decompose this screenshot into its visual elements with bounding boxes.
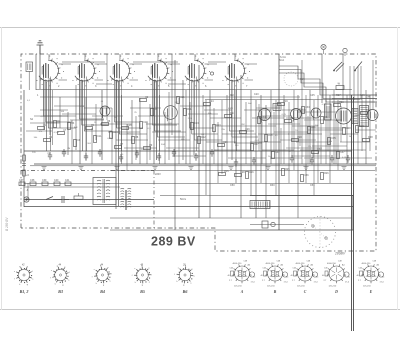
svg-text:125-210: 125-210 (297, 286, 305, 288)
svg-text:50c/s: 50c/s (180, 198, 187, 201)
wire (23, 90, 25, 207)
svg-text:B3: B3 (57, 289, 63, 294)
wire (280, 128, 282, 164)
coupling wires stage 6 (230, 54, 263, 151)
wire (320, 124, 322, 164)
wire (95, 104, 97, 140)
svg-text:C46: C46 (360, 94, 365, 97)
resistor R16 (246, 171, 255, 178)
wire (261, 122, 263, 164)
wire (172, 155, 206, 157)
resistor R3 (68, 122, 75, 129)
resistor R6 (102, 120, 111, 125)
wire (235, 90, 237, 183)
resistor R4 (86, 124, 95, 129)
wire (135, 116, 137, 160)
wire (118, 81, 120, 206)
wire (49, 78, 51, 135)
wire (275, 100, 277, 195)
aerial input coil (26, 62, 33, 90)
wire (70, 119, 104, 121)
capacitor C42 (57, 196, 69, 203)
coil diagram C (291, 261, 320, 294)
wire (327, 112, 329, 151)
resistor R24 (356, 125, 365, 132)
coupling wires stage 4 (153, 54, 186, 151)
wire (59, 97, 61, 128)
svg-text:C29: C29 (245, 128, 250, 131)
gramophone section dashed divider (153, 171, 155, 229)
wire (153, 80, 155, 164)
capacitor C54 (194, 153, 198, 161)
svg-text:R14: R14 (230, 112, 235, 115)
wire (300, 149, 334, 151)
svg-text:C11: C11 (97, 135, 102, 138)
wire (216, 125, 246, 127)
wire (26, 130, 52, 132)
wire (369, 95, 371, 151)
coil diagram B (261, 261, 290, 294)
capacitor C65 (346, 155, 350, 163)
wire (164, 112, 166, 164)
svg-text:B6: B6 (182, 289, 189, 294)
resistor C28 (235, 171, 246, 176)
svg-text:125-210: 125-210 (267, 286, 275, 288)
svg-text:0,5M: 0,5M (54, 132, 59, 134)
wire mains c (332, 101, 377, 103)
svg-text:B5: B5 (139, 289, 145, 294)
wire (286, 117, 314, 119)
wire (268, 123, 300, 125)
wire (40, 109, 68, 111)
svg-text:4000-150: 4000-150 (327, 263, 337, 265)
wire (156, 81, 158, 160)
svg-text:C34: C34 (317, 148, 322, 151)
resistor R17 (251, 143, 260, 150)
wire (312, 126, 314, 158)
wire (250, 141, 281, 143)
capacitor C50 (48, 152, 52, 160)
wire (273, 112, 275, 151)
resistor C24 (204, 100, 215, 105)
resistor R15 (219, 170, 230, 175)
speech coil (367, 110, 378, 121)
wire (357, 100, 359, 164)
resistor C34 (312, 148, 323, 153)
svg-text:B1, 2: B1, 2 (19, 289, 29, 294)
resistor C7 (58, 129, 67, 134)
svg-text:4000-150: 4000-150 (362, 263, 372, 265)
wire (228, 157, 266, 159)
resistor C18 (140, 121, 149, 128)
wire (100, 123, 132, 125)
wire screen bus (205, 99, 360, 101)
resistor R2 (54, 120, 61, 127)
mains transformer T5 (121, 188, 132, 210)
resistor C11 (94, 135, 103, 142)
wire (213, 108, 215, 164)
svg-text:R30: R30 (270, 184, 275, 187)
resistor R14 (225, 112, 236, 117)
wire mains b (332, 98, 377, 100)
tube socket pinout B5 (132, 264, 153, 294)
wire (246, 125, 276, 127)
ground (304, 167, 309, 170)
wire staircase osc a (279, 66, 377, 95)
svg-text:C50: C50 (230, 184, 235, 187)
wire phono return (24, 186, 120, 188)
svg-text:C37: C37 (19, 179, 24, 182)
valve B1 (37, 56, 64, 87)
wire (270, 157, 302, 159)
ground (342, 167, 347, 170)
wire (293, 90, 295, 170)
wire (258, 133, 289, 135)
wire (116, 139, 148, 141)
wire (149, 104, 151, 160)
resistor R13 (213, 124, 222, 131)
wire (174, 60, 176, 230)
wire (34, 115, 76, 117)
tuning indicator (dotted) (305, 217, 336, 248)
svg-text:R27: R27 (336, 94, 341, 97)
tube socket pinout B3 (50, 264, 70, 294)
svg-text:s: s (51, 270, 52, 272)
wire (188, 113, 218, 115)
capacitor C60 (210, 149, 214, 157)
svg-text:R20: R20 (297, 136, 302, 139)
svg-text:R15: R15 (224, 170, 229, 173)
svg-text:C21: C21 (180, 96, 185, 99)
wire (349, 66, 351, 100)
resistor R12 (198, 136, 207, 143)
svg-text:R28: R28 (368, 136, 373, 139)
wire (286, 147, 322, 149)
valve B7 (100, 106, 110, 118)
wire (308, 129, 343, 131)
capacitor C59 (172, 149, 176, 157)
smoothing choke (352, 109, 358, 124)
capacitor C58 (135, 150, 139, 158)
svg-text:C39: C39 (42, 179, 47, 182)
wire (330, 133, 358, 135)
wire (292, 155, 330, 157)
wire (146, 122, 148, 164)
svg-text:C23: C23 (194, 122, 199, 125)
wire AF bus (24, 183, 353, 185)
valve B8 (164, 106, 178, 122)
svg-text:125-210: 125-210 (329, 286, 337, 288)
svg-text:C47: C47 (340, 151, 345, 154)
loudspeaker field coil (336, 108, 352, 124)
tube socket pinout B1, 2 (14, 264, 34, 294)
wire (82, 81, 84, 151)
wire (221, 100, 223, 174)
wire (342, 54, 344, 100)
wire (85, 97, 87, 160)
wire (291, 120, 293, 158)
wire (321, 54, 323, 103)
wire (152, 131, 186, 133)
svg-text:R25: R25 (285, 168, 290, 171)
svg-text:4000-150: 4000-150 (233, 263, 243, 265)
wire bus lower (30, 165, 376, 167)
valve B5 (183, 56, 210, 87)
node junction small circle (210, 72, 213, 75)
svg-text:S CA: S CA (280, 56, 286, 59)
resistor C36 (301, 174, 310, 181)
scale lamp assembly (250, 221, 304, 228)
ground (42, 167, 47, 170)
capacitor C52 (22, 164, 26, 166)
volume potentiometer P1 (74, 193, 83, 199)
valve B2 (73, 56, 100, 87)
wire (226, 95, 228, 164)
wire grid bridge b (133, 61, 178, 63)
wire (79, 80, 81, 164)
field coil FC (250, 201, 270, 209)
wire (92, 115, 123, 117)
resistor C26 (218, 141, 229, 146)
wire (131, 100, 133, 164)
wire (310, 127, 348, 129)
wire (372, 60, 374, 109)
resistor R11 (184, 108, 193, 115)
ground (153, 167, 158, 170)
wire (333, 90, 335, 164)
wire (337, 100, 339, 170)
wire (329, 95, 331, 183)
svg-text:0,5M: 0,5M (228, 108, 233, 110)
wire anode bridge a (96, 83, 112, 85)
wire (115, 80, 117, 209)
wire (130, 107, 161, 109)
wire (106, 54, 108, 120)
svg-text:A: A (240, 290, 244, 294)
wire (39, 45, 41, 89)
wire (317, 95, 319, 183)
svg-text:C20: C20 (254, 93, 259, 96)
wire (260, 95, 262, 183)
svg-text:C51: C51 (310, 184, 315, 187)
wire (265, 105, 267, 218)
coupling wires stage 1 (44, 54, 77, 151)
wire (159, 95, 161, 164)
wire (304, 119, 342, 121)
wire (274, 131, 308, 133)
wire (270, 90, 272, 164)
resistor R25 (282, 168, 291, 175)
wire (361, 95, 363, 151)
antenna (37, 41, 44, 54)
wire (193, 81, 195, 155)
wire (62, 113, 96, 115)
IF transformer T1a (273, 104, 281, 111)
wire (138, 115, 169, 117)
wire (75, 85, 77, 150)
voltage selector (336, 84, 344, 90)
wire (30, 122, 60, 124)
coil diagram E (357, 261, 386, 294)
wire (360, 66, 362, 100)
resistor R5 (151, 108, 158, 115)
wire (67, 112, 69, 155)
resistor R7 (115, 143, 124, 148)
wire (124, 147, 157, 149)
svg-text:B: B (273, 290, 277, 294)
resistor C4 (44, 136, 53, 141)
valve B9 (259, 109, 271, 123)
wire staircase osc c (279, 73, 377, 102)
wire grid bridge c (208, 61, 226, 63)
svg-text:C45: C45 (310, 94, 315, 97)
wire (335, 120, 337, 164)
resistor R23 (334, 101, 345, 106)
wire cathode bus (34, 163, 376, 165)
wire staircase osc b (279, 70, 377, 99)
svg-text:R12: R12 (201, 136, 206, 139)
resistor R26 (321, 172, 330, 179)
valve B3 (108, 56, 135, 87)
wire (292, 125, 318, 127)
wire AVC bus (40, 96, 300, 98)
svg-text:C24: C24 (209, 100, 214, 103)
svg-text:R10: R10 (230, 94, 235, 97)
svg-text:289BV: 289BV (334, 252, 346, 256)
coil diagram A (228, 261, 257, 294)
pilot lamp L1 (321, 44, 326, 54)
wire (204, 109, 232, 111)
IF transformer T1 (325, 104, 332, 120)
resistor C9 (74, 139, 81, 146)
svg-text:B 289 BV: B 289 BV (5, 217, 9, 231)
wire (307, 116, 309, 164)
wire mains bus (24, 206, 353, 208)
svg-text:R22: R22 (324, 116, 329, 119)
wire (198, 65, 200, 218)
svg-text:8uF: 8uF (74, 127, 78, 129)
capacitor C57 (98, 149, 102, 157)
wire HT bus (36, 89, 352, 91)
resistor R19 (278, 100, 289, 105)
chassis dashed border (21, 54, 376, 251)
svg-text:4000-150: 4000-150 (296, 263, 306, 265)
svg-text:R18: R18 (268, 134, 273, 137)
wire (340, 141, 370, 143)
svg-text:C18: C18 (143, 121, 148, 124)
svg-text:D: D (334, 290, 338, 294)
resistor R22 (321, 116, 330, 123)
wire bottom rail (110, 217, 352, 219)
wire (209, 90, 211, 218)
wire (35, 54, 37, 90)
svg-text:4000-150: 4000-150 (266, 263, 276, 265)
wire (182, 81, 184, 160)
svg-text:s: s (134, 268, 135, 270)
svg-text:125-210: 125-210 (363, 286, 371, 288)
coil diagram D (322, 261, 351, 294)
wire (214, 149, 251, 151)
wire (202, 95, 204, 164)
wire section line (110, 170, 375, 172)
resistor C49 (361, 109, 372, 114)
resistor C35 (328, 137, 337, 144)
capacitor C37 (19, 179, 25, 185)
svg-text:8uF: 8uF (248, 103, 252, 105)
wire (299, 108, 301, 146)
svg-text:C40: C40 (54, 179, 59, 182)
resistor C31 (272, 151, 281, 158)
wire (282, 109, 306, 111)
wire (210, 117, 241, 119)
wire (180, 105, 210, 107)
resistor C29 (240, 128, 251, 133)
wire (205, 100, 207, 195)
wire (158, 139, 190, 141)
resistor R9 (144, 144, 153, 149)
svg-text:C14: C14 (113, 131, 118, 134)
svg-text:R17: R17 (254, 143, 259, 146)
svg-text:2M: 2M (67, 148, 70, 150)
wire (166, 147, 199, 149)
svg-text:B4: B4 (99, 289, 105, 294)
capacitor C61 (252, 157, 256, 165)
output transformer T3 (360, 106, 369, 127)
mains switch S3 (333, 62, 362, 72)
wire (91, 128, 93, 164)
wire (357, 66, 359, 100)
wire (353, 66, 355, 100)
wire output bus (160, 195, 353, 197)
capacitor C38 (30, 179, 36, 185)
wire (288, 133, 322, 135)
wire (258, 104, 260, 151)
capacitor C63 (310, 157, 314, 165)
svg-text:C28: C28 (240, 171, 245, 174)
svg-text:R16: R16 (249, 171, 254, 174)
capacitor C55 (234, 159, 238, 167)
svg-text:E: E (369, 290, 373, 294)
tube socket pinout B4 (92, 264, 112, 294)
wire (346, 95, 348, 164)
wire (231, 81, 233, 160)
ground (229, 167, 234, 170)
resistor R21 (308, 126, 317, 133)
svg-text:1M: 1M (349, 136, 352, 138)
wire (171, 54, 173, 135)
wire (301, 60, 303, 164)
svg-text:R13: R13 (216, 124, 221, 127)
resistor R28 (363, 136, 374, 141)
capacitor C41 (65, 179, 71, 185)
magic eye dotted outline (284, 72, 298, 86)
wire (43, 80, 45, 130)
wire (84, 107, 112, 109)
capacitor C52 (119, 154, 123, 162)
valve B11 (311, 108, 321, 120)
wire (262, 115, 292, 117)
svg-text:C19: C19 (300, 78, 305, 81)
svg-text:C38: C38 (30, 179, 35, 182)
resistor R8 (132, 136, 139, 143)
resistor C14 (110, 131, 119, 138)
valve B4 (146, 56, 173, 87)
svg-text:1M: 1M (174, 102, 177, 104)
svg-text:C31: C31 (275, 151, 280, 154)
valve B6 (223, 56, 250, 87)
svg-text:C26: C26 (223, 141, 228, 144)
wire (206, 141, 236, 143)
